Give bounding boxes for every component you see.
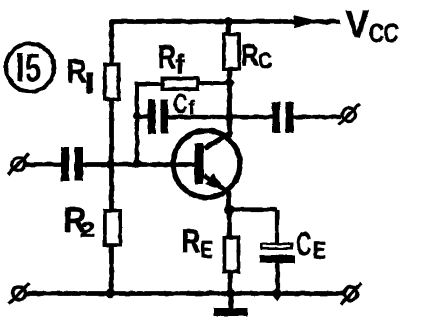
svg-text:R: R bbox=[67, 53, 87, 90]
svg-text:2: 2 bbox=[81, 218, 96, 242]
svg-text:V: V bbox=[345, 3, 369, 46]
svg-text:E: E bbox=[201, 238, 213, 263]
svg-text:CC: CC bbox=[369, 19, 399, 48]
svg-text:R: R bbox=[182, 225, 201, 260]
svg-text:C: C bbox=[259, 49, 272, 74]
svg-text:C: C bbox=[296, 224, 311, 262]
svg-text:C: C bbox=[174, 88, 188, 120]
svg-text:5: 5 bbox=[25, 46, 41, 91]
svg-text:f: f bbox=[189, 97, 196, 119]
svg-text:R: R bbox=[241, 38, 259, 72]
svg-text:R: R bbox=[158, 40, 176, 76]
svg-text:E: E bbox=[313, 238, 326, 264]
svg-text:f: f bbox=[176, 49, 186, 79]
